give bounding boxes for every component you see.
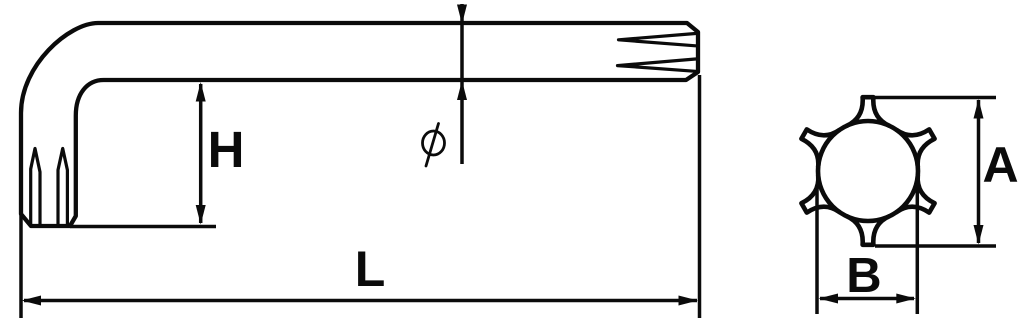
phi symbol slash	[426, 124, 439, 167]
star lobe upper-right	[897, 129, 935, 166]
L dimension line	[24, 299, 697, 303]
H bottom arrowhead	[196, 205, 206, 225]
H extension line	[70, 225, 216, 229]
svg-text:H: H	[208, 121, 245, 178]
B right extension line	[916, 178, 920, 314]
phi bottom arrowhead	[457, 81, 467, 101]
svg-text:B: B	[846, 249, 881, 303]
H top arrowhead	[196, 82, 206, 102]
A top extension line	[869, 96, 996, 100]
L right arrowhead	[679, 296, 699, 306]
A bottom extension line	[875, 244, 996, 248]
end spline groove 2	[618, 59, 696, 71]
phi dimension line	[460, 4, 464, 164]
star lobe lower-right	[897, 175, 935, 212]
tip spline groove 1	[31, 149, 40, 226]
A top arrowhead	[974, 99, 984, 119]
phi top arrowhead	[457, 5, 467, 25]
star lobe top	[847, 97, 889, 126]
L left extension line	[19, 214, 23, 318]
star lobe bottom	[847, 216, 889, 245]
H dimension line	[199, 84, 203, 223]
svg-text:L: L	[355, 241, 386, 297]
svg-text:A: A	[982, 137, 1018, 193]
A bottom arrowhead	[974, 225, 984, 245]
star lobe lower-left	[801, 175, 839, 212]
end spline groove 1	[619, 34, 696, 46]
B dimension line	[820, 297, 914, 301]
key body outline	[21, 23, 698, 226]
A dimension line	[977, 100, 981, 243]
star section circle	[818, 121, 918, 221]
B left extension line	[815, 186, 819, 314]
phi symbol circle	[423, 131, 445, 155]
L right extension line	[698, 75, 702, 318]
B left arrowhead	[819, 294, 839, 304]
tip spline groove 2	[58, 149, 67, 226]
star lobe upper-left	[801, 129, 839, 166]
L left arrowhead	[22, 296, 42, 306]
B right arrowhead	[896, 294, 916, 304]
